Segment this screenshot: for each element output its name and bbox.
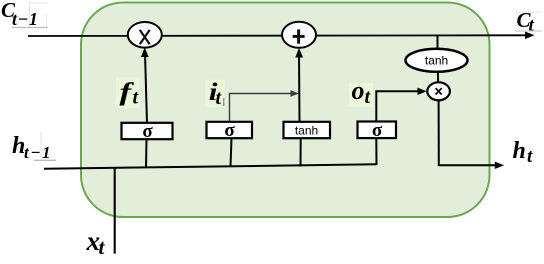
svg-text:o: o <box>352 76 365 105</box>
svg-text:σ: σ <box>372 120 383 141</box>
svg-text:h: h <box>513 138 526 164</box>
svg-text:tanh: tanh <box>425 53 448 67</box>
svg-text:t−1: t−1 <box>12 9 38 29</box>
svg-text:σ: σ <box>224 120 235 141</box>
svg-text:t−1: t−1 <box>24 143 52 162</box>
svg-text:tanh: tanh <box>295 123 318 137</box>
svg-text:t: t <box>99 235 106 259</box>
svg-text:σ: σ <box>142 121 153 142</box>
svg-text:t: t <box>529 15 535 36</box>
svg-text:t: t <box>527 146 533 167</box>
